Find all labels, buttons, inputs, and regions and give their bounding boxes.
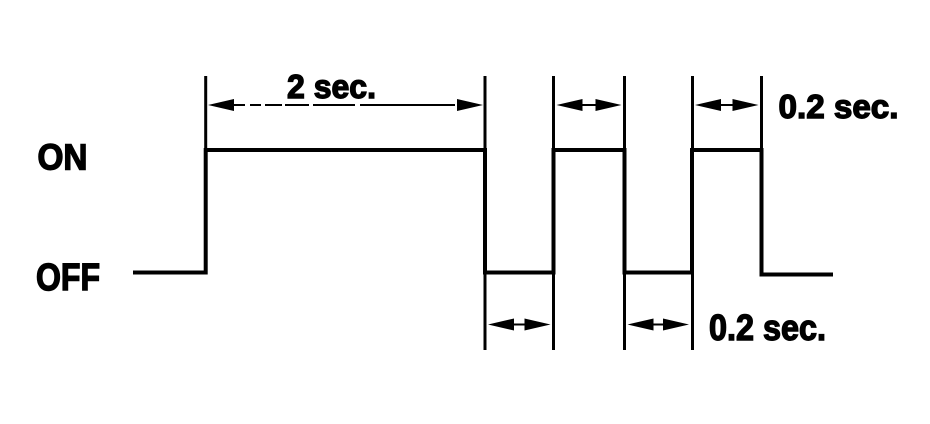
svg-text:0.2 sec.: 0.2 sec. [709,307,826,348]
extension line at x=485 (falling edge 1, bottom) [484,273,487,350]
extension line at x=692 (rising edge 3, top) [691,76,694,150]
dimension arrows 0.2 sec bottom-left (x 485-553.5) [512,324,527,326]
svg-text:OFF: OFF [36,257,100,299]
dimension arrows 0.2 sec top (x 553.5-624.5) [580,104,598,106]
extension line at x=553.5 (rising edge 2, top) [552,76,555,150]
svg-text:ON: ON [38,136,88,177]
extension line at x=624.5 (falling edge 2, top) [623,76,626,150]
extension line at x=206 (rising edge 1, top) [204,76,207,150]
dimension arrows 0.2 sec top-right (x 692-761.5) [719,104,735,106]
arrowhead left of 2 sec dimension [208,99,234,111]
dimension line 2 sec (top, x 206-485) [232,104,460,106]
extension line at x=692 (rising edge 3, bottom) [691,273,694,350]
extension line at x=485 (falling edge 1, top) [484,76,487,150]
extension line at x=624.5 (falling edge 2, bottom) [623,273,626,350]
extension line at x=553.5 (rising edge 2, bottom) [552,273,555,350]
dimension arrows 0.2 sec bottom-right (x 624.5-692) [651,324,666,326]
waveform trace ON/OFF square wave [133,150,833,275]
arrowhead right of 2 sec dimension [457,99,483,111]
extension line at x=761.5 (falling edge 3, top) [760,76,763,150]
svg-text:2 sec.: 2 sec. [287,69,376,106]
svg-text:0.2 sec.: 0.2 sec. [779,89,899,126]
